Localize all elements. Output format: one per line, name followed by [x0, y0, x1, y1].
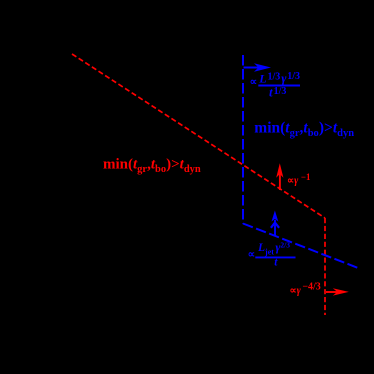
red right arrow (bottom) [326, 288, 349, 295]
svg-text:∝: ∝ [250, 77, 258, 88]
blue formula (lower): propto L_jet gamma^{2/3} / t [248, 240, 296, 269]
svg-text:∝: ∝ [248, 250, 256, 261]
blue up arrow (lower) [271, 211, 279, 237]
blue dashed diagonal boundary line [243, 224, 359, 269]
blue formula (top): propto L^{1/3} gamma^{1/3} / t^{1/3} [250, 71, 300, 100]
red dashed vertical boundary line [324, 218, 326, 315]
blue dashed vertical boundary line [242, 55, 244, 224]
blue right arrow (top) [244, 63, 272, 71]
red up arrow [276, 163, 283, 190]
red dashed diagonal boundary line [72, 54, 325, 218]
